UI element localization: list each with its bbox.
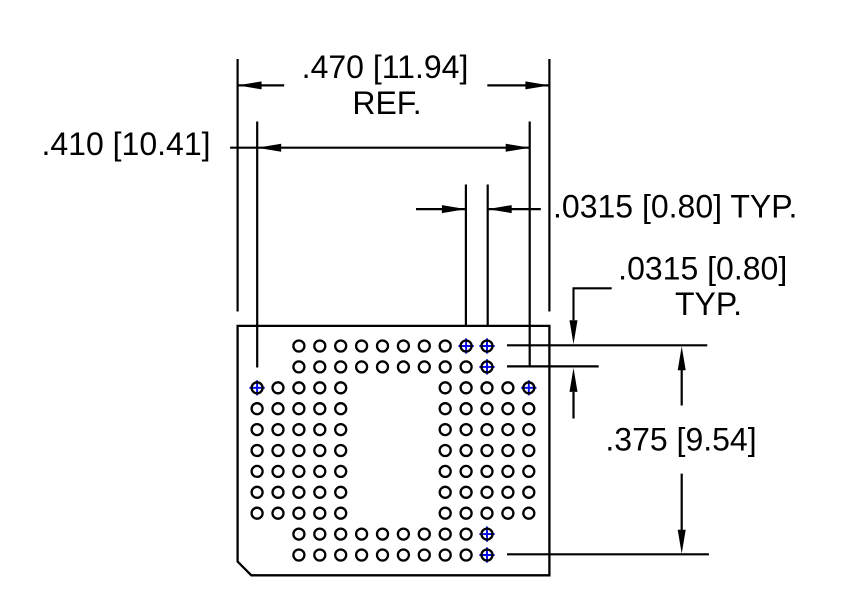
ball r2c10 <box>440 361 451 372</box>
ball r9c1 <box>252 508 263 519</box>
dimension line right segment with arrow, .470 <box>487 81 549 89</box>
dimension line left segment with arrow, .470 <box>238 81 285 89</box>
ball r2c6 <box>356 361 367 372</box>
svg-text:.410 [10.41]: .410 [10.41] <box>41 126 210 162</box>
ball r9c4 <box>314 508 325 519</box>
ball r4c2 <box>273 403 284 414</box>
ball r1c8 <box>398 341 409 352</box>
ball r10c6 <box>356 529 367 540</box>
extension line left for .470 dimension <box>237 59 239 312</box>
ball r1c5 <box>335 341 346 352</box>
ball r3c13 <box>502 382 513 393</box>
bent leader with down arrow, .0315 row pitch <box>570 288 612 344</box>
ball r2c4 <box>314 361 325 372</box>
extension line left for .410 dimension <box>256 122 258 368</box>
ball r3c11 <box>461 382 472 393</box>
ball r2c7 <box>377 361 388 372</box>
ball r8c11 <box>461 487 472 498</box>
ball r8c5 <box>335 487 346 498</box>
ball r8c13 <box>502 487 513 498</box>
ball r5c4 <box>314 424 325 435</box>
ball r11c9 <box>419 550 430 561</box>
ball r7c13 <box>502 466 513 477</box>
datum ball (crossed) r3c14 <box>521 380 536 395</box>
ball r3c5 <box>335 382 346 393</box>
ball r4c11 <box>461 403 472 414</box>
ball r11c7 <box>377 550 388 561</box>
extension line col12 for .0315 pitch dimension <box>487 185 489 326</box>
ball r11c5 <box>335 550 346 561</box>
ball r5c2 <box>273 424 284 435</box>
datum ball (crossed) r2c12 <box>479 359 494 374</box>
ball r10c4 <box>314 529 325 540</box>
ball r5c11 <box>461 424 472 435</box>
ball r10c7 <box>377 529 388 540</box>
ball r6c3 <box>293 445 304 456</box>
ball r5c10 <box>440 424 451 435</box>
ball r2c3 <box>293 361 304 372</box>
ball r10c3 <box>293 529 304 540</box>
ball r6c1 <box>252 445 263 456</box>
ball r8c4 <box>314 487 325 498</box>
ball r11c8 <box>398 550 409 561</box>
ball r7c14 <box>523 466 534 477</box>
extension line right for .410 dimension <box>529 122 531 368</box>
ball r8c12 <box>482 487 493 498</box>
extension line right for .470 dimension <box>548 59 550 312</box>
ball r5c3 <box>293 424 304 435</box>
ball r7c3 <box>293 466 304 477</box>
ball r9c12 <box>482 508 493 519</box>
ball r8c1 <box>252 487 263 498</box>
ball r2c9 <box>419 361 430 372</box>
ball r7c1 <box>252 466 263 477</box>
ball r6c14 <box>523 445 534 456</box>
ball r5c5 <box>335 424 346 435</box>
ball r6c12 <box>482 445 493 456</box>
ball r3c4 <box>314 382 325 393</box>
ball r9c11 <box>461 508 472 519</box>
ball r7c4 <box>314 466 325 477</box>
package outline (chamfered bottom-left corner) <box>238 326 550 575</box>
ball r6c4 <box>314 445 325 456</box>
ball r1c9 <box>419 341 430 352</box>
dimension line .410 with outward arrows <box>230 144 530 152</box>
ball r7c10 <box>440 466 451 477</box>
ball r7c12 <box>482 466 493 477</box>
ball r3c2 <box>273 382 284 393</box>
ball r3c10 <box>440 382 451 393</box>
ball r7c11 <box>461 466 472 477</box>
svg-text:TYP.: TYP. <box>675 286 742 322</box>
right arrow of .0315 pitch dimension <box>488 205 541 213</box>
datum ball (crossed) r1c12 <box>479 338 494 353</box>
up arrow of .375 dimension <box>678 346 686 405</box>
ball r4c12 <box>482 403 493 414</box>
datum ball (crossed) r10c12 <box>479 527 494 542</box>
ball r4c3 <box>293 403 304 414</box>
ball r2c8 <box>398 361 409 372</box>
ball r1c4 <box>314 341 325 352</box>
ball r11c6 <box>356 550 367 561</box>
ball r1c6 <box>356 341 367 352</box>
down arrow of .375 dimension <box>678 474 686 554</box>
ball r4c1 <box>252 403 263 414</box>
ball r6c2 <box>273 445 284 456</box>
ball r1c3 <box>293 341 304 352</box>
ball r7c2 <box>273 466 284 477</box>
svg-text:.470 [11.94]: .470 [11.94] <box>302 49 469 85</box>
ball r9c14 <box>523 508 534 519</box>
ball r10c5 <box>335 529 346 540</box>
ball r11c10 <box>440 550 451 561</box>
ball r9c2 <box>273 508 284 519</box>
up arrow of .0315 row pitch <box>570 368 578 419</box>
ball r5c14 <box>523 424 534 435</box>
ball r10c11 <box>461 529 472 540</box>
ball r11c11 <box>461 550 472 561</box>
datum ball (crossed) r11c12 <box>479 547 494 562</box>
ball r6c13 <box>502 445 513 456</box>
ball r10c9 <box>419 529 430 540</box>
leader line from ball row 2 <box>507 365 599 367</box>
ball r5c13 <box>502 424 513 435</box>
ball r8c2 <box>273 487 284 498</box>
ball r5c1 <box>252 424 263 435</box>
ball r3c12 <box>482 382 493 393</box>
datum ball (crossed) r1c11 <box>459 338 474 353</box>
ball r2c11 <box>461 361 472 372</box>
ball r4c4 <box>314 403 325 414</box>
svg-text:.375 [9.54]: .375 [9.54] <box>605 422 756 458</box>
ball r4c13 <box>502 403 513 414</box>
ball r8c10 <box>440 487 451 498</box>
leader line from ball row 11 <box>507 553 709 555</box>
ball r4c10 <box>440 403 451 414</box>
ball r11c4 <box>314 550 325 561</box>
ball r3c3 <box>293 382 304 393</box>
ball r10c8 <box>398 529 409 540</box>
ball r11c3 <box>293 550 304 561</box>
left arrow of .0315 pitch dimension <box>416 205 466 213</box>
ball r9c13 <box>502 508 513 519</box>
ball r4c5 <box>335 403 346 414</box>
ball r1c7 <box>377 341 388 352</box>
ball r6c5 <box>335 445 346 456</box>
datum ball (crossed) r3c1 <box>250 380 265 395</box>
ball r7c5 <box>335 466 346 477</box>
svg-text:.0315 [0.80] TYP.: .0315 [0.80] TYP. <box>553 189 797 225</box>
svg-text:REF.: REF. <box>352 85 421 121</box>
ball r6c11 <box>461 445 472 456</box>
svg-text:.0315 [0.80]: .0315 [0.80] <box>618 251 787 287</box>
ball r6c10 <box>440 445 451 456</box>
ball r10c10 <box>440 529 451 540</box>
ball r4c14 <box>523 403 534 414</box>
extension line col11 for .0315 pitch dimension <box>465 185 467 326</box>
ball r1c10 <box>440 341 451 352</box>
ball r9c5 <box>335 508 346 519</box>
ball r9c3 <box>293 508 304 519</box>
leader line from ball row 1 <box>507 344 707 346</box>
ball r9c10 <box>440 508 451 519</box>
ball r8c3 <box>293 487 304 498</box>
ball r2c5 <box>335 361 346 372</box>
ball r5c12 <box>482 424 493 435</box>
ball r8c14 <box>523 487 534 498</box>
